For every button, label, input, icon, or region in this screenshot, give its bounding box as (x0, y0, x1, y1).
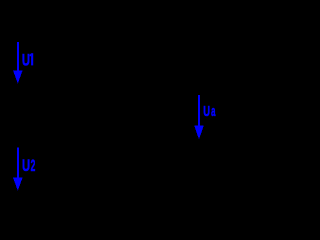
svg-text:2: 2 (31, 156, 36, 175)
svg-text:U: U (22, 51, 30, 70)
svg-text:U: U (22, 157, 30, 176)
voltage arrow U1 (input voltage, left top) (13, 42, 23, 84)
voltage arrow Ua (output voltage, right) (194, 95, 204, 139)
label U1 (22, 51, 33, 70)
svg-text:U: U (203, 103, 210, 120)
label Ua (203, 103, 216, 120)
voltage arrow U2 (left bottom) (13, 148, 23, 191)
svg-text:a: a (211, 105, 216, 120)
label U2 (22, 156, 35, 176)
